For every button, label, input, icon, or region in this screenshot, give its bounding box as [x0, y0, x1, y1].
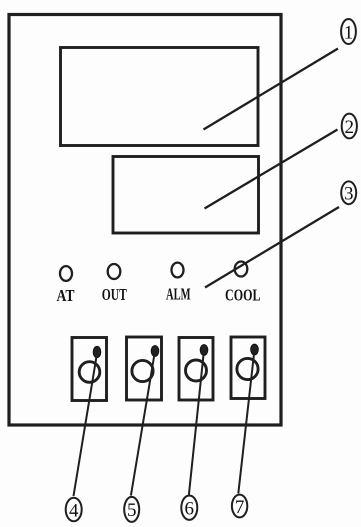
svg-text:7: 7: [235, 497, 245, 518]
leader line to callout 4: [74, 357, 97, 497]
svg-text:1: 1: [344, 22, 354, 43]
LED AT: [60, 266, 72, 281]
svg-text:5: 5: [127, 500, 137, 521]
button 1 indicator blob: [93, 346, 101, 357]
svg-text:ALM: ALM: [166, 285, 191, 304]
callout 6 circle: [181, 496, 197, 520]
leader line to callout 3: [205, 207, 339, 288]
svg-text:2: 2: [345, 117, 355, 138]
button 2 indicator blob: [151, 346, 159, 357]
svg-text:AT: AT: [57, 286, 75, 305]
LED OUT: [108, 264, 121, 279]
button 4 rect: [231, 337, 265, 399]
LED ALM: [172, 263, 184, 278]
callout 7 circle: [232, 495, 247, 518]
display window 1 (PV display): [61, 48, 259, 146]
button 4 indicator blob: [251, 344, 259, 355]
svg-text:6: 6: [185, 499, 195, 520]
leader line to callout 1: [204, 49, 339, 130]
button 3 knob circle: [186, 360, 207, 381]
button 1 knob circle: [79, 362, 100, 383]
callout 1 circle: [341, 19, 356, 44]
button 3 rect: [179, 338, 213, 401]
callout 5 circle: [124, 497, 139, 522]
svg-text:OUT: OUT: [102, 285, 127, 304]
button 1 rect: [72, 338, 107, 401]
callout 2 circle: [342, 114, 357, 139]
svg-text:3: 3: [344, 184, 354, 205]
leader line to callout 2: [205, 130, 338, 209]
svg-text:COOL: COOL: [225, 286, 261, 305]
callout 4 circle: [66, 498, 82, 522]
panel outline: [9, 15, 281, 426]
button 3 indicator blob: [200, 345, 208, 356]
callout 3 circle: [341, 181, 356, 204]
leader line to callout 6: [189, 350, 204, 495]
button 2 knob circle: [132, 360, 153, 381]
button 4 knob circle: [237, 358, 258, 379]
button 2 rect: [127, 337, 162, 400]
svg-text:4: 4: [69, 500, 79, 521]
leader line to callout 5: [131, 351, 155, 496]
leader line to callout 7: [238, 350, 254, 494]
LED COOL: [235, 262, 248, 277]
display window 2 (SV display): [113, 157, 259, 234]
